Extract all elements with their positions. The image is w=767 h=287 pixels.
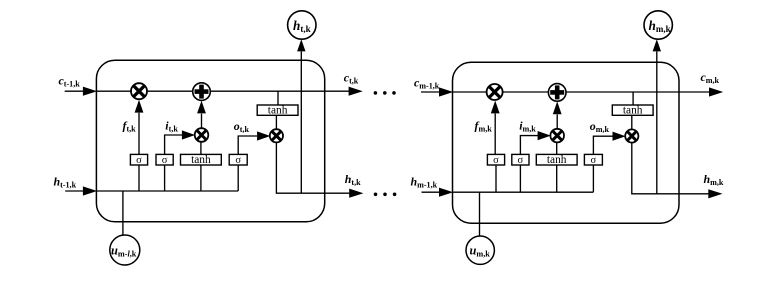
wire: h up to output circle (right) (656, 52, 658, 194)
ellipsis dots on h row (374, 193, 378, 197)
wire: tanh candidate from h line (right) (556, 165, 558, 192)
svg-text:σ: σ (518, 155, 524, 166)
wire: f gate into multiply (right) (494, 114, 496, 155)
multiply gate (input) (left) (195, 128, 209, 142)
box tanh candidate (left) (181, 154, 222, 165)
wire: h line (left) (96, 190, 238, 192)
LSTM cell box (right) (453, 62, 680, 223)
svg-text:σ: σ (162, 155, 168, 166)
add gate (right) (548, 84, 566, 102)
wire: c line tap into output tanh (right) (632, 92, 634, 105)
wire: candidate tanh into multiply (left) (200, 142, 202, 155)
wire: c line tap into output tanh (left) (277, 91, 279, 105)
box sigma i (left) (156, 154, 173, 165)
wire: input multiply into add (left) (201, 114, 203, 129)
wire: sigma f from h line (right) (495, 165, 497, 192)
wire: o gate into multiply (left) (238, 136, 257, 154)
svg-text:σ: σ (235, 155, 241, 166)
wire: candidate tanh into multiply (right) (556, 142, 558, 154)
svg-text:tanh: tanh (547, 154, 567, 166)
LSTM cell box (left) (96, 60, 324, 222)
add gate (left) (193, 83, 211, 101)
wire: output tanh into multiply (right) (631, 115, 633, 136)
box tanh candidate (right) (536, 154, 577, 165)
svg-text:σ: σ (136, 155, 142, 166)
wire: sigma o from h line (left) (237, 165, 239, 191)
box sigma o (right) (584, 154, 602, 165)
svg-text:tanh: tanh (268, 105, 288, 117)
input circle u_m,k (right) (466, 236, 494, 264)
svg-text:σ: σ (591, 155, 597, 166)
wire: output tanh into multiply (left) (275, 115, 277, 136)
box sigma o (left) (229, 154, 247, 165)
svg-text:tanh: tanh (191, 154, 211, 166)
wire: h up to output circle (left) (300, 52, 302, 194)
output circle h_m,k top (right) (644, 11, 672, 39)
wire: h line (right) (453, 191, 594, 193)
wire: c line (right) (453, 91, 711, 93)
wire: sigma o from h line (right) (592, 165, 594, 192)
multiply gate (forget) (right) (487, 84, 503, 100)
wire: sigma i from h line (left) (164, 165, 166, 191)
wire: c input (left) (65, 90, 84, 92)
output circle h_t,k top (left) (288, 11, 316, 39)
wire: sigma f from h line (left) (138, 165, 140, 191)
wire: sigma i from h line (right) (519, 165, 521, 192)
svg-text:σ: σ (493, 155, 499, 166)
box sigma f (right) (487, 154, 504, 165)
ellipsis dots on c row (374, 91, 378, 95)
multiply gate (output) (right) (625, 129, 638, 142)
wire: h input (left) (65, 190, 84, 192)
wire: i gate into multiply (left) (165, 135, 183, 154)
wire: h output from multiply (right) (632, 143, 710, 194)
wire: h output from multiply (left) (276, 142, 351, 193)
wire: u input line (left) (122, 191, 124, 236)
wire: input multiply into add (right) (556, 115, 558, 129)
wire: c input (right) (421, 91, 440, 93)
wire: f gate into multiply (left) (138, 113, 140, 155)
multiply gate (forget) (left) (131, 83, 147, 99)
wire: tanh candidate from h line (left) (200, 165, 202, 191)
input circle u_m-l,k (left) (110, 235, 140, 265)
wire: h input (right) (422, 191, 441, 193)
svg-text:tanh: tanh (623, 105, 643, 117)
wire: c line (left) (96, 90, 350, 92)
box tanh output (right) (612, 105, 653, 115)
box sigma f (left) (130, 154, 147, 165)
box tanh output (left) (257, 105, 298, 115)
wire: u input line (right) (479, 192, 481, 236)
multiply gate (input) (right) (550, 129, 564, 143)
wire: i gate into multiply (right) (520, 136, 538, 155)
wire: o gate into multiply (right) (593, 136, 612, 154)
box sigma i (right) (512, 154, 529, 165)
multiply gate (output) (left) (270, 129, 283, 142)
